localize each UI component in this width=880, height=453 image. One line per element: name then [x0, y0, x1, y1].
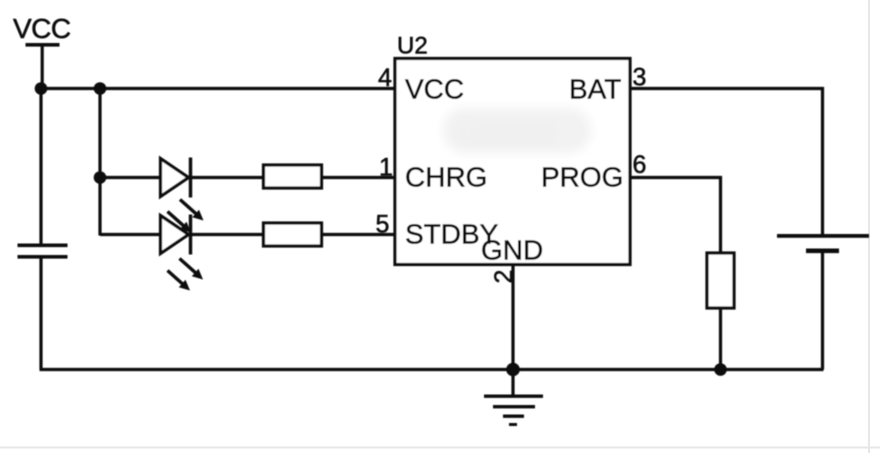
wire pin 3 BAT to battery	[630, 89, 823, 237]
page border (faint)	[868, 0, 870, 453]
wire bottom ground rail	[40, 368, 824, 371]
watermark blob	[443, 108, 591, 153]
wire resistor R3 to bottom rail	[719, 308, 722, 370]
node junction at 720,369	[714, 363, 727, 376]
resistor R1	[264, 165, 322, 188]
LED D2 arrow 3	[180, 259, 204, 280]
wire battery to bottom rail	[821, 252, 824, 370]
svg-text:GND: GND	[481, 235, 543, 266]
svg-text:PROG: PROG	[541, 162, 623, 193]
svg-text:VCC: VCC	[405, 74, 464, 105]
wire to LED D2 anode	[100, 233, 160, 236]
svg-text:1: 1	[379, 154, 393, 182]
svg-text:BAT: BAT	[569, 74, 621, 105]
svg-text:4: 4	[378, 64, 392, 92]
svg-text:5: 5	[376, 211, 390, 239]
wire pin 2 GND down	[511, 264, 514, 370]
svg-text:6: 6	[633, 151, 647, 179]
svg-text:U2606B: U2606B	[458, 119, 556, 149]
wire left branch down to capacitor	[39, 89, 42, 246]
wire resistor R1 to pin 1	[322, 176, 396, 179]
wire to LED D1 anode	[100, 176, 160, 179]
svg-text:CHRG: CHRG	[405, 162, 487, 193]
wire vertical branch x=100	[98, 89, 101, 236]
LED D2	[161, 215, 193, 255]
wire LED D2 cathode to resistor R2	[192, 233, 263, 236]
node junction at 40,88	[35, 82, 48, 95]
LED D2 arrow 2	[168, 212, 192, 233]
svg-text:VCC: VCC	[13, 13, 71, 44]
battery BT1	[777, 234, 869, 253]
wire LED D1 cathode to resistor R1	[192, 176, 263, 179]
svg-text:U2: U2	[397, 33, 428, 60]
wire resistor R2 to pin 5	[322, 233, 396, 236]
power flag VCC	[13, 13, 71, 89]
LED D2 arrow 4	[168, 271, 191, 291]
LED D2 arrow 1	[180, 200, 204, 221]
resistor R2	[264, 223, 322, 246]
op-amp U2 body	[395, 59, 630, 265]
wire capacitor to bottom rail	[39, 258, 42, 370]
ground	[484, 370, 543, 427]
wire top rail VCC	[40, 87, 394, 90]
capacitor C1	[18, 244, 68, 259]
node junction at 513,369	[506, 363, 520, 377]
LED D1	[161, 158, 193, 198]
wire pin 6 PROG to resistor R3	[630, 178, 721, 254]
node junction at 100,177	[94, 171, 107, 184]
node junction at 100,88	[94, 82, 107, 95]
resistor R3	[707, 253, 734, 308]
